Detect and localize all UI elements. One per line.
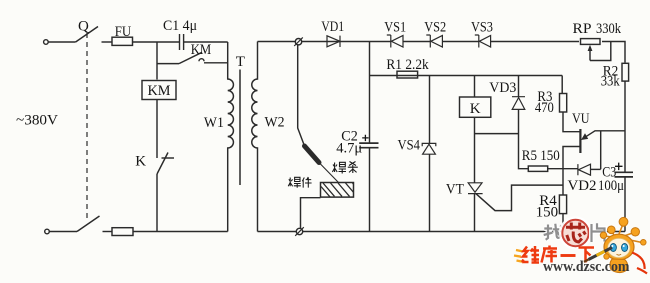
svg-text:100μ: 100μ — [598, 178, 624, 194]
zener VS4 — [422, 143, 436, 154]
transformer T core — [239, 70, 241, 186]
wire R2 down right bus — [624, 81, 626, 172]
svg-text:Q: Q — [78, 18, 89, 34]
watermark mascot body — [610, 259, 628, 273]
svg-text:VS2: VS2 — [424, 20, 446, 36]
wire bottom input — [49, 231, 77, 233]
watermark pian char gray — [592, 223, 605, 242]
svg-text:330k: 330k — [596, 21, 621, 37]
wire VT cathode — [474, 194, 476, 232]
fuse FU top — [112, 37, 133, 45]
UJT VU base1 wire — [563, 147, 580, 170]
svg-text:VD3: VD3 — [489, 80, 516, 96]
capacitor C2 plates — [359, 143, 378, 148]
wire KM contact to W1 line — [204, 62, 228, 64]
watermark ku char red — [542, 246, 558, 263]
diode VD2 — [578, 164, 591, 175]
node branch at 157 vertical — [156, 42, 158, 80]
potentiometer RP wiper loop wire — [590, 42, 611, 61]
svg-text:33k: 33k — [601, 73, 620, 89]
svg-text:~380V: ~380V — [16, 112, 58, 129]
resistor R3 — [560, 94, 567, 113]
svg-text:T: T — [236, 54, 245, 70]
capacitor C3 plates — [615, 172, 634, 177]
watermark mascot mouth — [617, 253, 622, 256]
resistor R2 — [622, 63, 629, 81]
diode VD3 — [512, 97, 525, 110]
watermark lens circle — [562, 220, 588, 246]
wire bottom secondary main — [303, 231, 625, 233]
svg-text:K: K — [135, 154, 146, 170]
label hantiao welding rod — [332, 162, 357, 174]
svg-text:FU: FU — [115, 24, 132, 40]
UJT VU base bar — [579, 129, 581, 153]
connector plug bottom — [296, 228, 302, 234]
resistor R4 — [559, 195, 566, 214]
watermark pian char halo — [592, 223, 605, 242]
switch Q pole 2 blade — [77, 216, 100, 232]
wire R4 bottom lead — [562, 214, 564, 232]
switch Q pole 1 blade — [76, 27, 98, 43]
diode VD1 — [327, 36, 340, 47]
wire R3 to VU base2 — [563, 112, 580, 132]
wire after Q top — [102, 41, 113, 43]
wire R1 row — [370, 75, 563, 77]
relay coil K box — [460, 97, 491, 117]
wire workpiece to connector — [301, 198, 321, 229]
resistor R1 — [397, 71, 418, 78]
wire VD3 down to R5 — [519, 109, 529, 168]
svg-text:KM: KM — [191, 42, 212, 58]
watermark yi char red — [561, 254, 576, 257]
svg-text:VD1: VD1 — [321, 19, 344, 35]
node L2 input terminal bottom — [45, 229, 50, 234]
watermark xia char red — [579, 248, 595, 263]
svg-text:R5 150: R5 150 — [522, 148, 560, 164]
wire connector to VS1 — [302, 41, 391, 43]
wire KM coil to contact K — [156, 100, 158, 159]
welding electrode bar — [305, 146, 320, 163]
svg-text:150: 150 — [536, 205, 559, 221]
node L1 input terminal top — [44, 40, 49, 45]
watermark lens halo — [561, 218, 591, 248]
watermark mascot head — [604, 234, 634, 260]
wire electrode lead — [298, 45, 305, 146]
svg-text:K: K — [470, 101, 481, 117]
svg-text:W2: W2 — [265, 114, 285, 130]
wire C3 to bottom bus — [624, 177, 626, 232]
wire junction K VD3 — [475, 133, 519, 135]
wire W2 top to connector — [258, 41, 296, 43]
wire RP to right corner — [602, 42, 625, 63]
svg-text:VS3: VS3 — [471, 20, 493, 36]
potentiometer RP wiper arrow — [589, 50, 591, 61]
wire VS4 lower — [429, 154, 431, 231]
wire C1 to W1 corner — [184, 41, 228, 43]
wire VT gate — [476, 185, 563, 211]
svg-text:www.dzsc.com: www.dzsc.com — [543, 259, 630, 275]
wire C2 down — [369, 148, 371, 232]
svg-text:VU: VU — [572, 111, 590, 127]
watermark zhao char gray — [544, 224, 563, 240]
svg-text:C1 4μ: C1 4μ — [163, 18, 197, 34]
contact KM lead left — [157, 63, 179, 65]
watermark mascot ribbon — [632, 253, 647, 274]
watermark orange streaks — [514, 250, 523, 262]
connector plug top — [295, 39, 301, 45]
watermark mascot hand — [604, 254, 609, 259]
workpiece hatched block — [321, 183, 354, 198]
capacitor C1 plates — [180, 34, 184, 50]
label hanjian workpiece — [288, 177, 311, 188]
wire R5 to VD2 — [548, 168, 578, 170]
watermark xin char red — [566, 223, 585, 243]
svg-text:VT: VT — [446, 181, 464, 197]
wire K coil bottom to VT anode — [474, 117, 476, 182]
wire main vertical after VD1 — [369, 42, 371, 143]
svg-text:470: 470 — [535, 100, 554, 116]
coil KM box — [142, 81, 176, 100]
wire VD2 to node — [591, 168, 601, 170]
contact KM blade — [179, 52, 202, 63]
zener VS3 — [475, 35, 491, 48]
wire R1 row corner down to R3 — [561, 76, 563, 94]
wire VS3 to RP — [491, 41, 579, 43]
svg-text:VD2: VD2 — [568, 178, 597, 194]
watermark mascot crown — [600, 217, 646, 245]
watermark wei char red — [522, 246, 539, 263]
contact KM fixed point — [199, 59, 204, 61]
wire VD3 top lead — [518, 76, 520, 97]
wire R4 top lead — [562, 169, 564, 195]
svg-text:KM: KM — [148, 83, 171, 99]
wire K to bottom — [156, 174, 158, 232]
wire FU to node C1KM — [133, 41, 180, 43]
svg-text:R1 2.2k: R1 2.2k — [386, 57, 429, 73]
contact K blade — [157, 153, 168, 175]
zener VS1 — [387, 35, 403, 48]
wire bottom secondary left — [258, 231, 297, 233]
fuse bottom — [112, 228, 133, 236]
wire top input — [48, 41, 75, 43]
watermark mascot pen — [589, 248, 613, 260]
svg-text:VS4: VS4 — [398, 138, 421, 154]
watermark mascot eyes — [610, 244, 616, 252]
label C2 plus — [362, 135, 368, 141]
thyristor VT triangle — [468, 183, 483, 194]
wire VS2 to VS3 — [442, 41, 478, 43]
wire K coil top lead — [474, 76, 476, 98]
wire VS1 to VS2 — [403, 41, 430, 43]
svg-text:4.7μ: 4.7μ — [336, 141, 362, 157]
zener VS2 — [426, 35, 442, 48]
UJT VU emitter — [584, 131, 626, 138]
wire electrode tip to workpiece — [319, 162, 339, 183]
svg-text:VS1: VS1 — [384, 20, 406, 36]
svg-text:RP: RP — [573, 21, 592, 37]
svg-text:W1: W1 — [204, 115, 224, 131]
potentiometer RP body — [581, 39, 601, 45]
contact K tick — [162, 157, 175, 159]
wire after Q bottom — [103, 231, 113, 233]
resistor R5 — [528, 166, 547, 171]
wire VS4 upper — [429, 76, 431, 144]
wire bottom to W1 — [133, 231, 228, 233]
label C3 plus — [615, 163, 623, 171]
wire emitter node down to VD2 — [600, 131, 602, 169]
switch Q mechanical link dashed — [86, 33, 88, 222]
watermark zhao char halo — [544, 224, 563, 240]
transformer T winding W1 — [228, 42, 234, 232]
transformer T winding W2 — [252, 42, 258, 232]
